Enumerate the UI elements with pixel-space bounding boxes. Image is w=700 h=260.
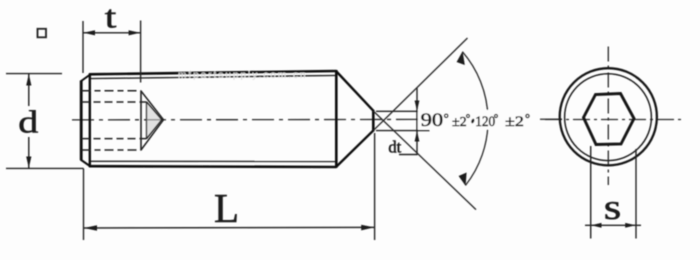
svg-text:dt: dt (388, 138, 401, 157)
dim s: left arrowhead (591, 223, 601, 228)
hex socket hidden line inner top (82, 101, 147, 103)
svg-text:120: 120 (475, 115, 495, 131)
thread minor line bottom (91, 160, 337, 162)
dim L: right arrowhead (361, 225, 374, 231)
dim t: left extension line (82, 21, 84, 73)
dim L: dimension line (84, 226, 375, 229)
dim d: top extension line (6, 73, 62, 75)
socket bottom vertical inner (146, 102, 148, 139)
dim L: right extension line (374, 133, 376, 240)
thread minor line top (91, 75, 337, 78)
dim dt: vertical dimension line (416, 88, 418, 155)
cone upper slope (336, 71, 374, 111)
dim d: bottom extension line (6, 167, 84, 169)
dim s: left extension line (590, 146, 592, 239)
chamfer bottom-left (81, 160, 91, 167)
white backing for angle text (418, 110, 535, 130)
angle upper leg (extension of lower cone slope) (373, 38, 467, 131)
svg-text:t: t (105, 0, 117, 35)
angle arc lower arrowhead (459, 173, 467, 186)
chamfer top-left (81, 74, 91, 81)
body top edge (89, 71, 337, 74)
dim dt: upper arrowhead (415, 101, 420, 112)
dim t: left arrowhead (83, 30, 95, 35)
cone tip flat face (372, 110, 375, 131)
left chamfer edge line (89, 74, 91, 168)
inner circle (chamfer) (565, 74, 652, 161)
dim s: right extension line (635, 149, 637, 239)
dim dt: lower arrowhead (415, 131, 420, 142)
dim t: right arrowhead (129, 30, 141, 35)
svg-text:L: L (214, 185, 239, 231)
horizontal centerline of end view (545, 119, 682, 121)
socket drill cone outer V (141, 91, 164, 150)
dim d: dimension line upper part (28, 74, 30, 106)
registration square (top-left) (38, 29, 47, 38)
socket drill cone shading (147, 103, 162, 139)
dim d: dimension line lower part (28, 137, 30, 168)
svg-text:±2: ±2 (505, 112, 524, 129)
socket bottom vertical outer (140, 91, 142, 151)
dim dt: upper extension line (376, 110, 430, 112)
dim s: right arrowhead (625, 223, 635, 228)
hex socket hidden line outer bottom (82, 149, 142, 151)
dim d: bottom arrowhead (26, 157, 31, 169)
body right edge (335, 70, 338, 168)
svg-text:±2: ±2 (452, 115, 467, 130)
dim d: top arrowhead (26, 74, 31, 86)
svg-text:d: d (18, 104, 38, 139)
svg-text:s: s (604, 187, 622, 227)
vertical centerline of end view (607, 47, 609, 186)
centerline (main axis) (72, 118, 563, 121)
angle arc (462, 52, 488, 186)
dim dt: lower extension line (376, 130, 430, 132)
body bottom edge (89, 165, 337, 168)
outer circle (screw OD) (560, 68, 657, 165)
cone lower slope (336, 130, 374, 167)
dim L: left arrowhead (84, 225, 97, 231)
dim L: left extension line (83, 168, 85, 240)
dim dt: leader under label (399, 154, 418, 156)
hex socket (584, 94, 635, 145)
label angle spec "90°±2°、120°±2°" (421, 111, 530, 131)
hex socket hidden line outer top (82, 90, 142, 92)
dim t: right extension line (140, 21, 142, 83)
svg-text:90: 90 (421, 111, 444, 131)
socket drill cone inner V (147, 102, 162, 139)
svg-text:mfpartsupply.com.cn: mfpartsupply.com.cn (178, 70, 308, 81)
angle lower leg (extension of upper cone slope) (373, 111, 476, 210)
dim s: dimension line (585, 224, 641, 226)
left end face (80, 81, 83, 161)
hex socket hidden line inner bottom (82, 138, 147, 140)
dim t: dimension line (83, 32, 141, 34)
angle arc upper arrowhead (457, 51, 465, 65)
